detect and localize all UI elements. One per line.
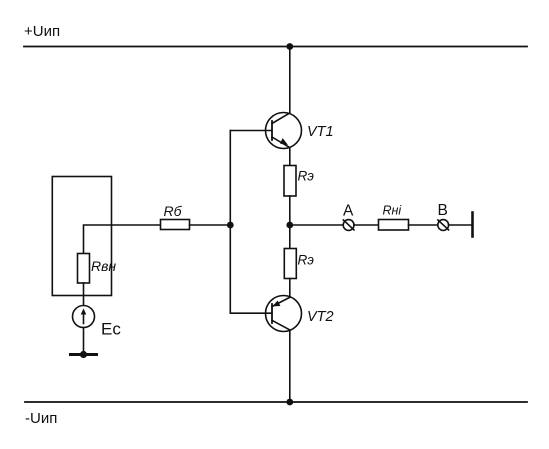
wire Rвн to source Ec <box>83 283 85 306</box>
svg-text:VT1: VT1 <box>307 124 334 140</box>
wire +Uип supply rail <box>24 46 527 48</box>
svg-text:Rвн: Rвн <box>91 258 116 274</box>
svg-text:VT2: VT2 <box>307 309 334 325</box>
wire Rвн top riser <box>84 225 161 254</box>
wire VT1 emitter to Rэ <box>289 147 291 165</box>
source block rectangle <box>52 177 111 296</box>
resistor Rб <box>161 220 190 230</box>
transistor VT2 <box>266 296 302 332</box>
svg-text:A: A <box>343 203 354 220</box>
resistor Rвн <box>78 254 90 284</box>
svg-text:Rб: Rб <box>164 203 183 219</box>
node base junction <box>227 222 234 229</box>
terminal A <box>343 220 354 231</box>
svg-text:-Uип: -Uип <box>25 410 57 427</box>
ground symbol <box>71 351 97 358</box>
transistor VT1 <box>266 113 302 149</box>
wire output node to Rэ lower <box>289 225 291 249</box>
wire VT1 base lead <box>230 130 272 132</box>
wire -Uип supply rail <box>25 401 527 403</box>
wire Ec to ground <box>83 328 85 355</box>
svg-text:B: B <box>438 202 448 219</box>
svg-text:Rэ: Rэ <box>298 253 315 268</box>
junction on -Uип rail <box>286 399 293 406</box>
svg-text:Ec: Ec <box>101 320 121 339</box>
wire terminal B to common bar <box>449 224 473 226</box>
wire VT2 base lead <box>230 312 272 314</box>
junction on +Uип rail <box>286 43 293 50</box>
wire terminal A to Rнi <box>354 224 379 226</box>
wire output node to terminal A <box>290 224 344 226</box>
svg-text:Rэ: Rэ <box>298 169 315 184</box>
resistor Rэ (upper) <box>284 166 296 197</box>
common bar (ground) <box>471 213 474 237</box>
wire Rб to base node <box>190 224 231 226</box>
node output junction <box>286 222 293 229</box>
svg-text:Rнi: Rнi <box>383 204 403 218</box>
svg-text:+Uип: +Uип <box>24 23 60 40</box>
wire VT1 collector to +Uип <box>289 47 291 114</box>
wire base bus (VT1 base to VT2 base) <box>229 131 231 314</box>
resistor Rнi <box>379 220 409 231</box>
resistor Rэ (lower) <box>284 249 296 279</box>
wire Rэ upper to output node <box>289 196 291 225</box>
terminal B <box>438 220 449 231</box>
source Ec <box>73 306 95 328</box>
wire VT2 collector to -Uип <box>289 331 291 403</box>
wire Rэ lower to VT2 emitter <box>289 279 291 298</box>
wire Rнi to terminal B <box>409 224 438 226</box>
